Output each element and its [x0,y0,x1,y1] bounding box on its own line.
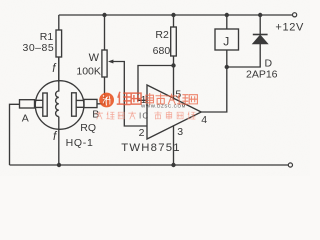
node dot J top [225,13,229,17]
resistor R2 [171,27,177,56]
potentiometer W body [102,50,107,77]
svg-text:RQ: RQ [80,122,96,134]
svg-text:+12V: +12V [275,22,304,34]
node dot R2 top [171,13,175,17]
relay J box [215,29,239,50]
svg-text:4: 4 [201,114,207,126]
node dot R2 bottom / pin5 [171,63,175,67]
contact block A [20,100,35,108]
svg-text:IC: IC [139,112,149,121]
wire heater bottom lead to ground rail [58,117,60,165]
svg-text:2: 2 [139,127,145,139]
wire pin5 riser [173,66,175,100]
node dot W top [102,13,106,17]
node dot sensor to ground rail [57,163,61,167]
diode D 2AP16 [253,35,268,44]
contact block B [84,99,97,107]
electrode A plate [43,93,47,116]
wire R2 top lead [173,15,175,27]
svg-text:3: 3 [177,126,183,138]
wire pin3 to ground rail [173,125,175,165]
svg-text:R2: R2 [155,29,169,41]
gas sensor HQ-1 envelope [35,81,84,130]
wire R2 bottom lead [173,56,175,66]
terminal output bottom right [288,163,292,167]
wire R1 top lead [58,15,60,30]
watermark text row1 维库 [117,92,141,104]
wire W wiper to pin 2 [112,62,148,127]
wire J top lead [226,15,228,29]
svg-text:D: D [265,57,273,69]
terminal +12V [293,13,297,17]
wiper arrow head [108,60,113,64]
wire electrode A double lead [35,100,43,107]
watermark text row1 电子市场网 [146,94,197,105]
svg-text:TWH8751: TWH8751 [121,142,181,154]
svg-text:B: B [92,108,99,120]
wire bottom ground rail [10,164,289,166]
svg-text:WWW.DZSC.COM: WWW.DZSC.COM [141,104,186,109]
svg-text:100K: 100K [76,66,101,78]
op-amp U1 TWH8751 triangle [147,85,201,139]
watermark dzsc logo [99,93,114,108]
node dot pin3 ground [171,163,175,167]
wire B to potentiometer bottom [97,77,105,104]
diode cathode bar [253,34,268,36]
node dot D cathode [258,13,262,17]
wire pin1 from R2 node [138,66,174,101]
wire R1 bottom lead to sensor heater [58,57,60,83]
svg-text:2AP16: 2AP16 [246,69,278,81]
svg-text:A: A [22,113,29,125]
wire node J-bottom to diode [227,44,260,67]
wire W top lead [104,15,106,50]
wire electrode B double lead [76,100,84,107]
watermark text row2 [96,112,136,119]
svg-text:30–85: 30–85 [22,42,54,54]
electrode B plate [72,93,77,116]
resistor R1 [56,30,62,57]
svg-text:J: J [223,35,229,49]
svg-text:W: W [89,52,100,64]
svg-text:HQ-1: HQ-1 [66,137,94,149]
wire diode cathode lead [259,15,261,35]
wire A to left rail [10,104,20,165]
wire top rail +12V [59,14,293,16]
scan noise texture [0,0,1,1]
wire pin4 to relay [201,50,227,112]
heater coil f-f [56,57,59,117]
node dot J bottom / pin4 [225,65,229,69]
svg-text:680: 680 [153,45,171,57]
